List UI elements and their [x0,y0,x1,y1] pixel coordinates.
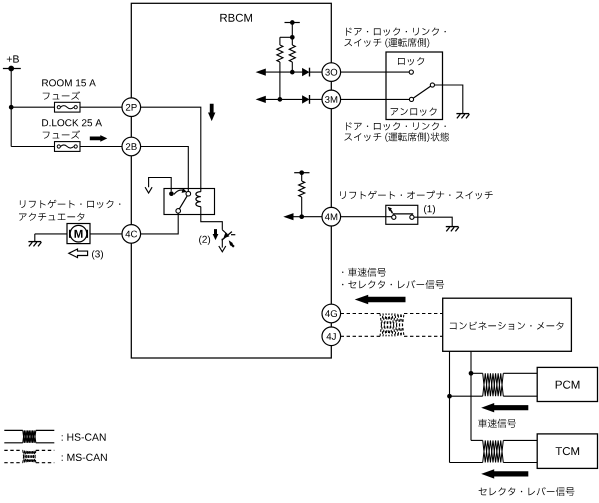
pin 4M [322,207,341,226]
wire 4M sense line [291,216,323,218]
arrow open output [145,187,152,193]
switch blade SW1 [413,86,430,98]
wire 4G MS-CAN (dashed) [341,313,443,315]
label lock (kana) [398,57,424,65]
pin 2P [122,98,141,117]
wire 2P to relay coil [141,107,201,192]
TCM box [537,434,597,469]
wire common to ground [435,85,463,114]
label signal list line1 [342,268,386,277]
label liftgate opener switch [340,191,492,200]
label unlock (kana) [391,108,437,116]
arrow SW2 actuation [388,207,393,213]
wire motor to ground [35,234,67,242]
relay moving contact [186,191,191,196]
arrow 3M signal to MCU [256,96,266,103]
wire to ROOM fuse [11,106,54,108]
wire 3M sense line [263,98,322,100]
contact unlock [409,97,413,101]
ground G3 opener switch [446,227,459,232]
junction R1/3M line [278,97,283,102]
wire relay drive branch [149,178,172,192]
label liftgate lock actuator line1 [20,200,121,209]
junction +B/ROOM-fuse [9,105,14,110]
pin 2B [122,137,141,156]
label ROOM 15 A [42,79,96,86]
label door-lock-link-switch line1 [346,28,446,36]
relay blade [179,196,187,209]
twisted pair HS-CAN PCM [483,373,504,396]
contact common [430,83,434,87]
arrow vehicle speed signal [481,403,528,412]
wire D.LOCK fuse to pin 2B [80,146,122,148]
wire 3M to unlock contact [341,98,410,100]
wire 4C to relay lower contact [141,213,179,234]
resistor R2 pull-up [289,37,295,72]
resistor R3 pull-up [299,173,305,217]
twisted pair MS-CAN [380,314,404,337]
wire TCM CAN-L [450,462,538,464]
label signal list line2 [342,280,444,289]
diode D3 indicator [222,230,236,248]
relay fixed contact [169,191,174,196]
wire CAN-H meter down [470,351,472,440]
arrow (3) actuation direction [69,249,88,258]
resistor R1 pull-up [277,37,283,99]
wire 4J MS-CAN (dashed) [341,335,443,337]
motor M1 liftgate lock actuator [67,224,90,244]
wire CAN-L meter down [449,351,451,462]
arrow signal down at 2P [208,104,215,121]
node +B [3,55,21,71]
label switch state line2 [344,132,449,142]
relay actuation arc arrow [174,188,187,195]
arrow selector lever signal [481,469,528,478]
contact SW2 left [392,215,396,219]
wire motor to pin 4C [90,233,122,235]
wire rail down [290,23,295,40]
label combination meter [450,322,564,330]
arrow 4M signal to MCU [283,213,293,220]
label switch state line1 [346,122,446,130]
label TCM [556,447,580,455]
label RBCM [220,14,252,22]
switch SW2 box [386,205,418,224]
wire TCM CAN-H [471,439,537,441]
junction R2/3O line [290,70,295,75]
label liftgate lock actuator line2 [19,213,84,221]
junction CAN-H/PCM [469,371,474,376]
ground G1 actuator [28,242,41,247]
wire PCM CAN-H [471,372,537,374]
PCM box [537,367,597,401]
wire rail to R1 [280,36,292,38]
label fuse2 (fuse kana) [43,130,80,138]
wire +B vertical bus [10,69,12,147]
label (3) [92,250,103,259]
wire PCM CAN-L [450,395,538,397]
wire coil to LED [201,207,223,230]
pin 3O [322,63,341,82]
pin 4C [122,225,141,244]
legend MS-CAN twisted pair [4,450,54,462]
arrow signal down at LED [213,229,219,240]
label vehicle speed signal [478,419,516,428]
power rail (pull-up) [285,20,300,25]
label D.LOCK 25 A [42,119,102,126]
junction R3/4M line [299,214,304,219]
legend label MS-CAN [62,454,107,461]
RBCM module box [131,3,331,358]
arrow indicator light [229,240,234,247]
pin 4J [322,327,341,346]
label selector lever signal [479,487,575,496]
pin 4G [322,304,341,323]
wire to D.LOCK fuse [11,146,54,148]
power rail (pull-up 4M) [294,170,309,175]
label (2) [199,236,210,245]
twisted pair HS-CAN TCM [483,440,504,462]
wire SW2 to ground [414,217,452,226]
arrow MS-CAN direction [355,295,406,305]
label (1) [424,205,435,214]
combination meter box [443,298,572,351]
label PCM [556,381,580,389]
wire 2B to relay switch [141,147,189,192]
label fuse1 (fuse kana) [43,91,80,99]
wire 3O to lock contact [341,71,410,73]
fuse F1 ROOM 15 A [55,102,81,112]
switch SW1 box [386,52,443,120]
wire ROOM fuse to pin 2P [80,106,122,108]
pin 3M [322,90,341,109]
contact SW2 right [410,215,414,219]
relay lower contact [176,209,181,214]
legend HS-CAN twisted pair [4,430,54,442]
arrow 3O signal to MCU [256,69,266,76]
diode D1 [302,68,309,77]
diode D2 [302,95,309,104]
fuse F2 D.LOCK 25 A [55,142,81,152]
legend label HS-CAN [62,433,106,440]
arrow open LED output [219,246,226,252]
wire 3O sense line [263,71,322,73]
ground G2 door-lock switch [456,114,469,119]
switch SW2 bar [393,213,414,215]
label door-lock-link-switch line2 [344,38,429,48]
wire 4M to opener switch [341,216,392,218]
relay K1 box [164,189,215,215]
junction CAN-L/PCM [447,394,452,399]
contact lock [409,70,413,74]
arrow current into 2B [90,135,108,142]
relay coil L1 [196,192,201,207]
